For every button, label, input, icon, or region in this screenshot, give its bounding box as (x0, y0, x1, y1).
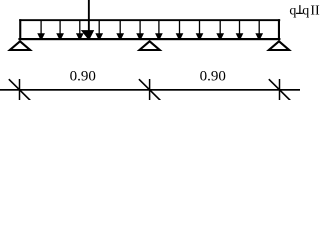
svg-text:0.90: 0.90 (70, 69, 96, 85)
svg-text:q: q (289, 3, 296, 18)
svg-text:0.90: 0.90 (200, 69, 226, 85)
svg-text:II: II (310, 3, 320, 18)
svg-text:q: q (302, 3, 309, 18)
